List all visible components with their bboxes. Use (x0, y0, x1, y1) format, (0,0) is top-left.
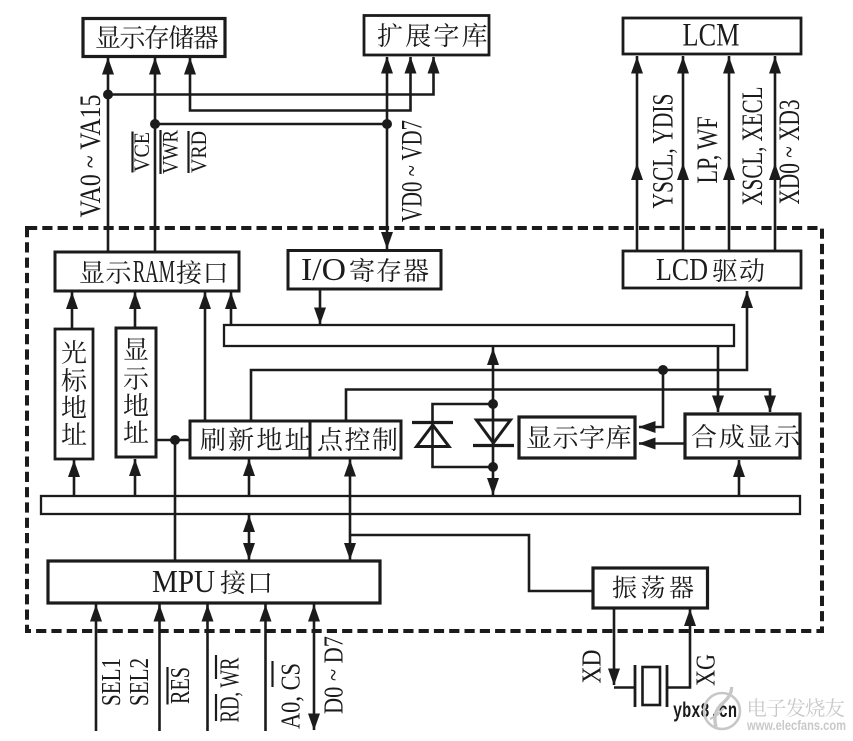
arrowhead down into MPU (x249) (243, 543, 255, 560)
wire 光标地址 to RAM接口 (71, 292, 74, 329)
watermark text 电子发烧友 (749, 698, 844, 717)
box display memory 显示存储器 (83, 19, 225, 57)
arrowhead up into bus2 (x249) (243, 515, 255, 532)
bus bar upper (address/data bus) (224, 325, 734, 346)
wire MPU input SEL x96 (95, 604, 98, 731)
wire refresh line2 刷新地址->LCD驱动 (251, 291, 747, 421)
arrowhead into 显示存储器 at x108 (102, 58, 114, 75)
wire MPU input RD/WR x207.5 (206, 604, 209, 731)
text 驱动 (713, 258, 764, 282)
text 扩展字库 (378, 23, 487, 47)
text 显示 (RAM接口 box) (80, 261, 130, 284)
arrowhead D0~D7 into MPU (308, 605, 320, 622)
arrowhead 显示地址->RAM接口 (129, 292, 141, 309)
diode D2 triangle (down) (477, 420, 511, 443)
arrowhead XD down (608, 669, 620, 686)
wire bus2 to 光标地址 (73, 460, 76, 496)
crystal X1 right plate (666, 665, 669, 707)
arrowhead RD/WR into MPU (202, 605, 214, 622)
arrowhead 刷新地址->RAM接口 (199, 292, 211, 309)
box display RAM interface 显示RAM接口 (55, 252, 239, 291)
wire bus2 to 显示地址 (134, 459, 137, 496)
wire x155 display-memory to RAM-interface (154, 57, 157, 252)
diode D2 anode bar (473, 444, 514, 447)
diode D1 triangle (up) (417, 425, 450, 447)
wire line3 点控制->合成显示 (346, 390, 770, 422)
arrowhead down into MPU (x350) (344, 543, 356, 560)
junction dot (387,124) (382, 119, 392, 129)
junction dot (175,440) (170, 435, 180, 445)
overline WR (215, 655, 217, 679)
arrowhead into 扩展字库 at x387 (381, 57, 393, 74)
arrowhead I/O寄存器->bus1 (314, 308, 326, 325)
wire LCD-driver to LCM #4 x775 (774, 56, 777, 251)
wire VCE/VWR/VRD link 显示存储器-扩展字库 (190, 57, 411, 111)
arrowhead RES into MPU (154, 605, 166, 622)
arrowhead mid LCM line #3 (723, 163, 735, 180)
junction dot line2 (663,370) (658, 365, 668, 375)
arrowhead mid LCM line #4 (769, 163, 781, 180)
arrowhead bus2->光标地址 (68, 460, 80, 477)
wire LCD-driver to LCM #3 x729 (728, 56, 731, 251)
arrowhead into LCM #1 (631, 57, 643, 74)
wire MPU input RES x159.5 (158, 604, 161, 731)
text 显示字库 (527, 425, 630, 449)
text 点控制 (318, 427, 397, 451)
arrowhead into LCM #4 (769, 57, 781, 74)
dashed chip boundary box (27, 228, 822, 631)
arrowhead into 扩展字库 at x410 (405, 57, 417, 74)
arrowhead bus2->刷新地址 (243, 459, 255, 476)
arrowhead into 扩展字库 at x433 (428, 57, 440, 74)
arrowhead XG up into 振荡器 (684, 609, 696, 626)
box compose display 合成显示 (685, 414, 800, 458)
svg-text:A0, CS: A0, CS (276, 663, 306, 729)
arrowhead A0/CS into MPU (260, 605, 272, 622)
arrowhead up into 点控制 (344, 460, 356, 477)
svg-text:VD0 ~ VD7: VD0 ~ VD7 (396, 120, 429, 222)
wire x175 down to MPU (174, 440, 177, 561)
svg-text:www.elecfans.com: www.elecfans.com (746, 718, 846, 733)
wire branch 663 to 显示字库 (639, 370, 663, 427)
wire VA branch to 扩展字库 (108, 57, 434, 95)
wire XD to crystal (614, 686, 635, 689)
box LCM (623, 18, 801, 54)
arrowhead bus2->合成显示 (733, 460, 745, 477)
overline VCE (131, 132, 133, 173)
box display address 显示地址 (116, 328, 156, 457)
box oscillator 振荡器 (593, 568, 708, 608)
box cursor address 光标地址 (55, 329, 93, 459)
svg-text:RD, WR: RD, WR (215, 658, 245, 723)
svg-text:D0 ~ D7: D0 ~ D7 (319, 636, 349, 714)
wire bus1 to RAM接口 (230, 292, 233, 325)
wire LCD-driver to LCM #1 x637 (636, 56, 639, 251)
watermark elecfans leaf logo (704, 687, 740, 729)
wire 显示地址 to 刷新地址 link (156, 439, 190, 442)
box MPU interface MPU接口 (48, 561, 380, 603)
box LCD driver LCD驱动 (623, 251, 801, 288)
svg-text:RAM: RAM (133, 253, 175, 289)
arrowhead mid LCM line #2 (677, 163, 689, 180)
junction dot (155,124) (150, 119, 160, 129)
wire MPU input A0/CS x265.5 (264, 604, 267, 731)
text 刷新地址 (201, 427, 310, 451)
text 显示地址 (124, 338, 149, 443)
junction dot VA (108,94.5) (103, 90, 113, 100)
arrowhead into 显示字库 top-right (639, 421, 656, 433)
wire bus1 to 合成显示 (717, 346, 720, 412)
wire 刷新地址 to RAM接口 (204, 292, 207, 421)
wire I/O寄存器 to bus1 (319, 289, 322, 324)
crystal X1 body (643, 667, 661, 705)
svg-text:SEL1: SEL1 (96, 658, 126, 706)
text 显示存储器 (96, 25, 218, 49)
overline VRD (187, 131, 189, 173)
text 寄存器 (350, 258, 428, 282)
wire VD link y124 (155, 123, 387, 126)
arrowhead bus1->合成显示 (712, 396, 724, 413)
svg-text:MPU: MPU (152, 563, 215, 599)
wire MPU data D0~D7 (313, 604, 316, 730)
arrowhead diode line up into bus1 (487, 348, 499, 365)
svg-text:LCD: LCD (656, 251, 708, 287)
svg-text:I/O: I/O (301, 251, 346, 287)
arrowhead into LCM #3 (723, 57, 735, 74)
bus bar lower (internal bus) (41, 496, 800, 514)
overline RD (215, 694, 217, 721)
wire VD0-VD7 vertical x387 (386, 57, 389, 249)
arrowhead bus2->显示地址 (129, 459, 141, 476)
svg-text:RES: RES (165, 667, 195, 704)
box refresh address 刷新地址 (190, 421, 310, 458)
wire VA0-VA15 vertical x108 (107, 57, 110, 252)
wire MPU-bus2 double arrow (248, 515, 251, 560)
text 光标地址 (62, 340, 87, 445)
arrowhead SEL into MPU (90, 605, 102, 622)
box dot control 点控制 (310, 421, 401, 458)
diode D1 cathode bar (412, 421, 453, 424)
junction dot diode top (493,404) (488, 399, 498, 409)
svg-text:XG: XG (691, 654, 721, 686)
wire diode vertical x493 (492, 347, 495, 495)
wire 合成显示 to 显示字库 (639, 442, 685, 445)
text 振荡器 (613, 575, 694, 598)
svg-text:LCM: LCM (683, 18, 740, 54)
wire crystal to XG up into oscillator (667, 609, 690, 688)
wire oscillator XD out (613, 607, 616, 685)
overline RES (166, 667, 168, 705)
arrowhead line3 into 合成显示 (764, 396, 776, 413)
arrowhead diode line down into bus2 (487, 478, 499, 495)
crystal X1 left plate (634, 665, 637, 707)
arrowhead into LCM #2 (677, 57, 689, 74)
arrowhead mid LCM line #1 (631, 163, 643, 180)
arrowhead into 显示存储器 at x155 (149, 58, 161, 75)
text 接口 (RAM接口 box) (177, 260, 226, 284)
arrowhead bus1->RAM接口 (225, 292, 237, 309)
wire bus2 to 合成显示 (738, 460, 741, 496)
arrowhead into 显示字库 right-lower (639, 438, 656, 450)
overline CS (271, 661, 273, 687)
box display font 显示字库 (519, 417, 635, 458)
arrowhead D0~D7 down (bottom) (308, 714, 320, 731)
wire 点控制-MPU crossing bus2 (349, 459, 352, 560)
overline VWR (159, 130, 161, 174)
wire diode loop left branch (433, 404, 494, 467)
box I/O register I/O寄存器 (288, 251, 441, 290)
junction dot diode bottom (493,467) (488, 462, 498, 472)
arrowhead into 显示存储器 at x190 (184, 58, 196, 75)
wire 显示地址 to RAM接口 (134, 292, 137, 328)
svg-text:SEL2: SEL2 (124, 658, 154, 706)
wire bus2 to 刷新地址 (248, 459, 251, 496)
arrowhead into I/O寄存器 (VD down) (381, 232, 393, 249)
arrowhead line2 into LCD驱动 (741, 291, 753, 308)
box extended font 扩展字库 (364, 16, 489, 56)
wire LCD-driver to LCM #2 x683 (682, 56, 685, 251)
text 合成显示 (692, 424, 799, 448)
arrowhead 光标地址->RAM接口 (66, 292, 78, 309)
svg-text:XD0 ~ XD3: XD0 ~ XD3 (773, 100, 806, 205)
svg-text:LP, WF: LP, WF (691, 117, 724, 184)
wire MPU to oscillator (350, 535, 593, 591)
svg-text:VA0 ~ VA15: VA0 ~ VA15 (74, 95, 107, 218)
svg-text:XD: XD (577, 650, 607, 684)
svg-text:XSCL, XECL: XSCL, XECL (736, 87, 769, 206)
svg-text:VRD: VRD (186, 131, 211, 173)
svg-text:YSCL, YDIS: YSCL, YDIS (647, 94, 680, 209)
text 接口 (MPU box) (221, 570, 271, 594)
